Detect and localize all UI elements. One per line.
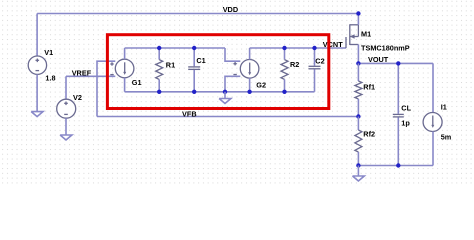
ground below V2 (60, 135, 72, 140)
junction VFB at Rf divider (356, 114, 360, 118)
svg-text:5m: 5m (441, 132, 452, 141)
svg-text:TSMC180nmP: TSMC180nmP (361, 43, 410, 52)
current source I1 (423, 102, 452, 141)
junction CL bottom (396, 163, 400, 167)
wire V2 top to VREF (65, 76, 67, 99)
svg-text:G2: G2 (256, 80, 266, 89)
junction G2 bottom (247, 90, 251, 94)
wire I1 branch top (432, 63, 434, 112)
wire G1 output top (124, 48, 126, 59)
resistor Rf2 (355, 117, 375, 166)
wire V1 top to VDD rail (36, 14, 38, 57)
svg-text:VFB: VFB (182, 110, 197, 119)
junction VDD at M1 (356, 11, 360, 15)
wire common bottom rail (125, 91, 315, 93)
junction C2 top VCNT (312, 46, 316, 50)
junction bottom left (356, 163, 360, 167)
wire stage2 top rail VCNT (250, 47, 346, 49)
voltage source V2 (57, 93, 82, 118)
wire G1 output bottom (124, 78, 126, 92)
capacitor CL (393, 63, 412, 165)
svg-text:VCNT: VCNT (323, 40, 343, 49)
junction R1 bottom (157, 90, 161, 94)
junction R2 bottom (282, 90, 286, 94)
resistor R1 (156, 48, 175, 92)
wire G2 output top (249, 48, 251, 60)
resistor Rf1 (355, 63, 375, 116)
capacitor C2 (309, 48, 325, 92)
svg-text:C2: C2 (315, 57, 324, 66)
junction G2 minus to rail (223, 90, 227, 94)
svg-text:I1: I1 (441, 102, 447, 111)
svg-text:1.8: 1.8 (45, 74, 55, 83)
transconductance amp G1 (110, 59, 141, 87)
ground below V1 (31, 112, 43, 117)
wire V1 bottom (36, 74, 38, 111)
ground inside box (219, 99, 231, 104)
junction CL top (396, 61, 400, 65)
wire V2 bottom (65, 118, 67, 135)
svg-text:1p: 1p (401, 119, 410, 128)
wire G2 minus input (225, 76, 240, 92)
svg-text:CL: CL (401, 103, 411, 112)
ground bottom right (353, 176, 365, 181)
capacitor C1 (188, 48, 206, 92)
wire I1 branch bottom (432, 132, 434, 166)
junction R1 top (157, 46, 161, 50)
wire VREF to G1 minus input (66, 75, 115, 77)
svg-text:M1: M1 (361, 30, 371, 39)
svg-text:V1: V1 (44, 48, 53, 57)
junction C1 bottom (192, 90, 196, 94)
voltage source V1 (28, 48, 55, 83)
svg-text:Rf1: Rf1 (363, 83, 375, 92)
svg-text:V2: V2 (73, 93, 82, 102)
svg-text:R2: R2 (290, 60, 299, 69)
svg-text:G1: G1 (132, 78, 142, 87)
svg-text:VDD: VDD (223, 5, 238, 14)
junction R2 top (282, 46, 286, 50)
svg-text:R1: R1 (166, 61, 175, 70)
wire bottom right rail (358, 165, 433, 167)
svg-text:VOUT: VOUT (368, 55, 389, 64)
wire M1 drain to VOUT (357, 45, 359, 64)
wire G2 output bottom (249, 78, 251, 92)
svg-text:VREF: VREF (72, 68, 92, 77)
ground stub inside box (224, 92, 226, 99)
wire stage1 output drop to G2 plus (225, 48, 240, 61)
junction VOUT (356, 61, 360, 65)
junction C1 top (192, 46, 196, 50)
svg-text:Rf2: Rf2 (363, 129, 375, 138)
svg-text:C1: C1 (196, 56, 205, 65)
transconductance amp G2 (233, 60, 266, 90)
wire VDD rail (37, 13, 358, 15)
annotation red box (107, 35, 328, 109)
wire stage1 top rail (125, 47, 225, 49)
ground stub bottom right (357, 166, 359, 177)
wire VOUT horizontal (358, 62, 433, 64)
pmos M1 (346, 24, 410, 52)
wire VFB vertical to G1 plus input (97, 61, 115, 116)
resistor R2 (281, 48, 299, 92)
wire M1 source to VDD (357, 14, 359, 25)
wire VFB horizontal (97, 116, 358, 118)
